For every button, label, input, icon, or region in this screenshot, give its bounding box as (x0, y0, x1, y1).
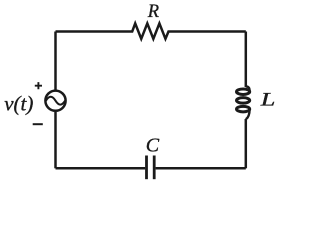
voltage source V1 circle (45, 91, 65, 111)
wire right vertical (bottom segment) (245, 119, 248, 168)
inductor L1 loop 3 (237, 106, 250, 112)
inductor L1 coil entry curve (246, 86, 250, 91)
svg-text:v(t): v(t) (4, 92, 33, 116)
inductor L1 loop 1 (237, 89, 250, 95)
capacitor C1 right plate (153, 156, 156, 180)
svg-text:L: L (260, 89, 276, 110)
inductor L1 coil exit curve (246, 109, 250, 119)
wire left vertical (bottom segment) (54, 112, 57, 169)
wire left vertical (top segment) (54, 32, 57, 90)
svg-text:R: R (147, 2, 159, 22)
wire right vertical (top segment) (245, 32, 248, 88)
minus sign of source (33, 123, 43, 125)
wire bottom-right horizontal (156, 167, 246, 170)
wire bottom-left horizontal (56, 167, 146, 170)
voltage source sine wave (46, 97, 65, 105)
wire top-left horizontal + resistor R1 zigzag + top-right horizontal (56, 23, 246, 38)
plus sign of source (35, 82, 42, 89)
capacitor C1 left plate (145, 156, 148, 180)
inductor L1 loop 2 (237, 98, 250, 104)
svg-text:C: C (146, 134, 160, 156)
